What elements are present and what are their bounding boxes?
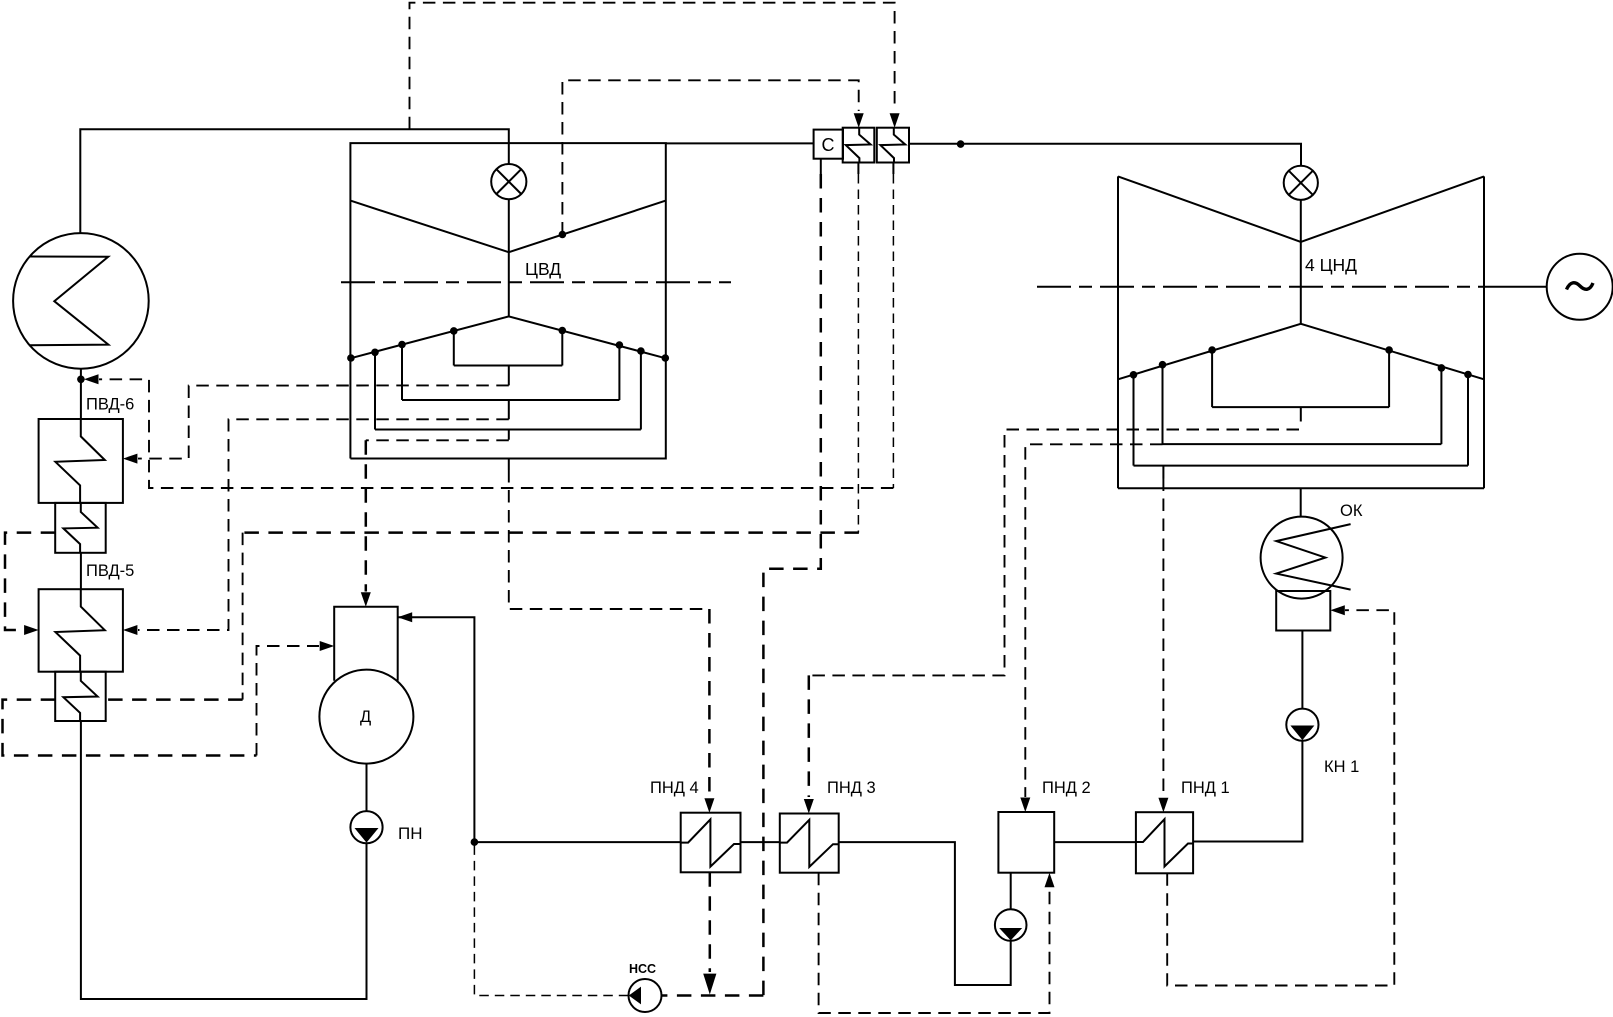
node extraction dots on ЦНД bbox=[1130, 346, 1472, 378]
svg-text:4 ЦНД: 4 ЦНД bbox=[1305, 255, 1357, 275]
wire fine dashed: valve 2 drain drop bbox=[892, 174, 894, 488]
svg-text:ПН: ПН bbox=[398, 824, 423, 843]
heater ПНД 4 bbox=[681, 813, 741, 873]
arrow into valve 2 bbox=[890, 113, 900, 128]
wire ЦВД extraction loop 3 bbox=[375, 351, 641, 440]
wire dashed: extraction 3 to deaerator bbox=[366, 439, 509, 441]
arrow into ПНД4 top bbox=[704, 798, 714, 813]
wire ЦВД extraction loop 1 bbox=[454, 331, 563, 386]
wire valve drain stubs bbox=[858, 163, 893, 175]
wire dashed: extraction 2 to ПВД-5 bbox=[138, 419, 509, 630]
heater ПВД-5 bbox=[39, 589, 123, 672]
wire dashed: ПНД3 drain to ПНД2 bbox=[819, 873, 1050, 1013]
shaft axis ЦВД (dash-dot) bbox=[341, 281, 731, 283]
wire ЦНД exhaust to condenser bbox=[1300, 488, 1302, 516]
wire heavy dashed: ПВД-6 drain cascade to ПВД-5 bbox=[5, 533, 55, 630]
wire cold steam line ЦВД to С box bbox=[666, 142, 814, 144]
condenser hotwell box bbox=[1276, 591, 1330, 631]
wire heavy dashed: С box drain to НСС line bbox=[662, 174, 821, 996]
wire dashed: ПНД1 drain to condenser bbox=[1167, 610, 1394, 985]
pump ПН bbox=[350, 811, 382, 843]
wire ПНД3 to ПНД2 loop bbox=[839, 842, 1011, 985]
wire dashed: ЦНД extraction 2 to ПНД2 bbox=[1025, 444, 1162, 797]
arrow into ПВД-5 left bbox=[24, 625, 38, 635]
arrow into boiler feed junction bbox=[84, 374, 99, 384]
wire ПНД2 to ПНД1 bbox=[1054, 841, 1136, 843]
node on steam line bbox=[957, 140, 965, 148]
seal steam box С bbox=[814, 130, 843, 159]
turbine ЦВД rotor center line bbox=[508, 252, 510, 316]
boiler B (steam generator circle) bbox=[13, 233, 149, 369]
wire dashed: ЦНД extraction 3 to ПНД1 bbox=[1162, 479, 1164, 798]
node condensate junction bbox=[471, 838, 479, 846]
wire deaerator to ПН bbox=[366, 764, 368, 812]
arrow into deaerator right bbox=[398, 612, 413, 622]
wire pump to ПНД2 bbox=[1010, 873, 1012, 910]
wire condenser hotwell to КН1 bbox=[1301, 631, 1303, 709]
wire X-symbol to ЦВД nozzle bbox=[508, 199, 510, 252]
generator G bbox=[1547, 254, 1613, 320]
wire dashed: main steam tap to valve 2 bbox=[410, 3, 895, 130]
wire heavy dashed: valve 1 drain to deaerator bbox=[3, 533, 859, 756]
wire fine dashed: НСС discharge to condensate line bbox=[474, 842, 628, 995]
heater ПНД 1 bbox=[1136, 812, 1193, 873]
arrow into condenser hotwell bbox=[1330, 605, 1345, 615]
arrow ПНД4 drain bottom bbox=[703, 974, 716, 995]
svg-text:НСС: НСС bbox=[629, 962, 656, 976]
valve 2 (stop valve) bbox=[877, 128, 909, 163]
op valve X-symbol on ЦНД inlet bbox=[1284, 166, 1318, 200]
turbine ЦНД rotor center line bbox=[1300, 242, 1302, 324]
wire ЦВД extraction loop 2 bbox=[402, 345, 619, 420]
arrow into ПНД2 bottom drain bbox=[1045, 873, 1055, 888]
wire ПВД-6 to ПВД-5 bbox=[80, 553, 82, 589]
valve 1 (stop valve) bbox=[843, 128, 875, 163]
turbine 4 ЦНД casing sides and bottom bbox=[1118, 176, 1484, 488]
wire dashed: ЦВД exhaust to ПНД4 steam bbox=[509, 470, 710, 609]
svg-text:ПВД-6: ПВД-6 bbox=[86, 396, 134, 414]
heater ПВД-5 drain cooler bbox=[55, 672, 105, 721]
wire dashed: valve1 drain drop mid bbox=[242, 533, 244, 700]
pump НСС bbox=[629, 979, 662, 1012]
turbine ЦНД upper blades V bbox=[1118, 176, 1484, 242]
generator ~ symbol bbox=[1567, 283, 1594, 290]
wire fine dashed: valve 1 drain drop bbox=[857, 174, 859, 533]
arrow into deaerator top bbox=[361, 592, 371, 607]
wire ЦВД exhaust stub bbox=[508, 459, 510, 471]
wire condensate main to deaerator bbox=[398, 617, 475, 842]
turbine ЦВД lower blades bbox=[350, 316, 665, 358]
wire heavy dashed: ПНД4 drain to НСС line bbox=[709, 872, 712, 972]
svg-text:ПВД-5: ПВД-5 bbox=[86, 562, 134, 580]
shaft axis ЦНД to generator (dash-dot) bbox=[1037, 286, 1505, 288]
condenser ОК circle bbox=[1261, 517, 1343, 599]
arrow into ПНД2 top bbox=[1020, 798, 1030, 813]
wire ЦНД extraction loop 2 bbox=[1163, 365, 1442, 444]
pump КН 1 bbox=[1286, 709, 1318, 741]
wire heavy dashed: deaerator steam feed bbox=[365, 440, 368, 591]
deaerator column bbox=[334, 607, 398, 681]
wire dashed: ЦНД extraction 1 to ПНД3 bbox=[809, 430, 1299, 676]
wire dashed: drain riser to deaerator left bbox=[257, 646, 320, 756]
svg-text:ПНД 1: ПНД 1 bbox=[1181, 779, 1230, 797]
wire dashed: extraction 1 to ПВД-6 bbox=[138, 385, 509, 458]
wire ЦНД extraction loop 3 bbox=[1134, 375, 1469, 479]
wire heavy dashed: ПНД4 steam bbox=[708, 609, 711, 797]
svg-text:ПНД 3: ПНД 3 bbox=[827, 779, 876, 797]
node: feedwater junction below boiler bbox=[77, 376, 85, 384]
arrow into deaerator left bbox=[320, 641, 335, 651]
wire X-symbol to ЦНД nozzle bbox=[1300, 200, 1302, 242]
wire valves to ЦНД inlet bbox=[909, 144, 1301, 166]
wire ПНД4 to ПНД3 bbox=[741, 841, 780, 843]
arrow into ПВД-6 bbox=[123, 454, 137, 464]
heater ПНД 3 bbox=[780, 814, 839, 873]
op valve X-symbol on ЦВД inlet bbox=[491, 164, 526, 199]
wire dashed: ЦВД stage tap to valve 1 bbox=[562, 80, 858, 234]
arrow into ПНД3 top bbox=[804, 799, 814, 814]
wire condensate main bbox=[474, 841, 680, 843]
svg-text:ПНД 4: ПНД 4 bbox=[650, 779, 699, 797]
wire С box bottom stub bbox=[820, 159, 822, 174]
wire ПНД1 to КН1 bbox=[1193, 741, 1302, 842]
pump of ПНД2 bbox=[995, 909, 1027, 941]
wire ЦНД extraction loop 1 bbox=[1212, 350, 1389, 422]
deaerator tank Д bbox=[319, 670, 413, 764]
turbine ЦВД upper blades V bbox=[350, 201, 665, 253]
turbine ЦНД lower blades bbox=[1118, 324, 1484, 380]
arrow into ПНД1 top bbox=[1158, 798, 1168, 813]
wire feedwater from pump ПН to ПВД-5 bbox=[81, 721, 367, 999]
wire main steam: boiler riser and header to ЦВД inlet bbox=[80, 129, 509, 233]
node extraction dots on ЦВД bbox=[347, 231, 669, 362]
arrow into ПВД-5 right bbox=[123, 625, 137, 635]
wire boiler bottom to ПВД-6 bbox=[80, 369, 82, 420]
svg-text:ОК: ОК bbox=[1340, 502, 1363, 520]
wire heavy dashed: ПНД3 steam bbox=[808, 675, 811, 797]
turbine ЦВД casing bbox=[350, 143, 665, 458]
heater ПВД-6 bbox=[39, 419, 123, 503]
arrow into valve 1 bbox=[854, 113, 864, 128]
heater ПВД-6 drain cooler bbox=[55, 503, 105, 553]
svg-text:С: С bbox=[822, 135, 835, 155]
heater ПНД 2 (mixing) bbox=[998, 812, 1054, 873]
wire dashed: valve 2 drain to boiler feed junction bbox=[99, 379, 893, 488]
svg-text:КН 1: КН 1 bbox=[1324, 758, 1359, 776]
svg-text:ПНД 2: ПНД 2 bbox=[1042, 779, 1091, 797]
svg-text:Д: Д bbox=[360, 708, 371, 726]
svg-text:ЦВД: ЦВД bbox=[525, 259, 561, 279]
